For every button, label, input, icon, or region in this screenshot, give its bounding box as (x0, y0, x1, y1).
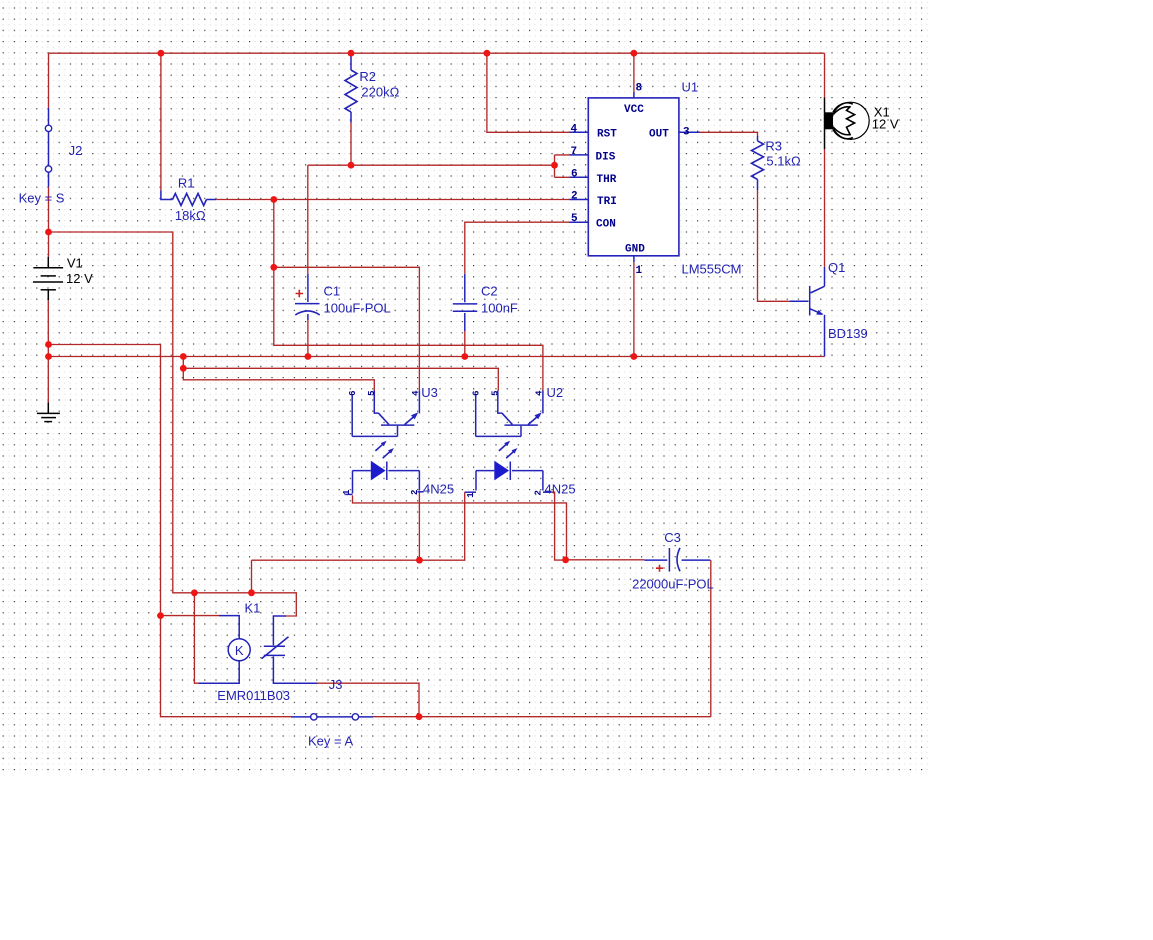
svg-text:100nF: 100nF (481, 301, 518, 316)
capacitor C3 (632, 530, 714, 592)
transistor Q1 (790, 260, 868, 357)
svg-text:8: 8 (636, 83, 643, 95)
wire lamp bottom to Q1 collector (824, 149, 826, 267)
U2 pin number 5 (490, 390, 500, 395)
junction battery bottom a (45, 341, 52, 348)
wire U3 pin2 down (418, 492, 420, 560)
svg-text:RST: RST (597, 129, 617, 141)
svg-text:4N25: 4N25 (545, 482, 576, 497)
wire to U3 pin5 (183, 368, 374, 390)
junction battery top (45, 229, 52, 236)
junction 555 gnd rail (631, 353, 638, 360)
svg-text:R1: R1 (178, 175, 195, 190)
svg-text:6: 6 (571, 168, 578, 180)
wire battery minus to ground rail (47, 300, 49, 402)
junction C3 left node (562, 556, 569, 563)
U2 pin number 4 (535, 390, 545, 396)
wire TRI node down to U2 pin4 (274, 267, 543, 390)
svg-text:2: 2 (571, 191, 578, 203)
wire rail to RST pin 4 (487, 53, 570, 132)
svg-text:K1: K1 (245, 600, 261, 615)
U3 pin number 4 (411, 390, 421, 396)
junction coil bottom net (191, 589, 198, 596)
svg-text:C2: C2 (481, 284, 498, 299)
junction R2 bottom (348, 162, 355, 169)
resistor R1 (161, 175, 216, 223)
wire R1 right to TRI pin 2 (216, 199, 569, 201)
switch J3 (291, 677, 373, 749)
wire rail to R1 left (160, 53, 162, 190)
relay K1 (199, 600, 318, 703)
U3 pin number 2 (410, 490, 420, 495)
wire R2 bottom node (308, 123, 555, 166)
junction J3 C3 return (416, 713, 423, 720)
svg-text:TRI: TRI (597, 196, 617, 208)
svg-text:VCC: VCC (624, 104, 644, 116)
capacitor C1 (295, 274, 391, 320)
svg-text:1: 1 (342, 489, 352, 495)
svg-text:C1: C1 (324, 284, 341, 299)
wire ground rail y=356.5 (49, 356, 825, 358)
svg-text:1: 1 (466, 492, 476, 498)
optocoupler U3 (342, 385, 454, 497)
wire OUT pin 3 to R3 (700, 132, 758, 136)
svg-text:OUT: OUT (649, 129, 669, 141)
junction opto emitter net (180, 365, 187, 372)
svg-text:R3: R3 (765, 138, 782, 153)
svg-text:C3: C3 (664, 530, 681, 545)
ground (37, 403, 60, 422)
U2 pin number 6 (471, 390, 481, 395)
svg-text:4: 4 (535, 390, 545, 396)
wire J2 node to K1 feed (x=172.8 drop) (49, 232, 297, 616)
svg-text:Key = A: Key = A (308, 734, 353, 749)
wire gnd rail to U2 pin5 (183, 357, 498, 391)
svg-text:18kΩ: 18kΩ (175, 208, 206, 223)
svg-text:R2: R2 (359, 69, 376, 84)
wire V1 plus to J2 (48, 53, 50, 257)
junction coil feed (157, 612, 164, 619)
wire relay contact bottom to J3 node (318, 683, 420, 717)
switch J2 (19, 108, 83, 206)
555 timer U1 (570, 79, 742, 277)
svg-text:220kΩ: 220kΩ (361, 84, 399, 99)
junction rail x183 (180, 353, 187, 360)
svg-text:3: 3 (683, 126, 690, 138)
svg-text:U3: U3 (421, 385, 438, 400)
svg-text:5: 5 (490, 390, 500, 395)
wire bottom rail right of J3 (373, 716, 711, 718)
wire K1 node to U2 pin1 (252, 492, 465, 560)
U3 pin number 5 (367, 390, 377, 395)
svg-text:100uF-POL: 100uF-POL (324, 301, 391, 316)
wire C3 right to bottom rail (710, 560, 712, 717)
svg-text:K: K (235, 643, 244, 658)
wire DIS THR tee (555, 155, 570, 177)
svg-text:12 V: 12 V (872, 116, 899, 131)
svg-text:U2: U2 (547, 385, 564, 400)
svg-text:5: 5 (367, 390, 377, 395)
lamp X1 (824, 98, 899, 150)
resistor R3 (752, 136, 801, 190)
wire C1 bottom to rail (307, 320, 309, 357)
wire K1 coil bottom return (194, 593, 198, 683)
wire U3 pin1 to C3 left node (353, 495, 567, 559)
U2 pin number 2 (534, 490, 544, 495)
svg-text:1: 1 (636, 265, 643, 277)
svg-text:GND: GND (625, 244, 645, 256)
svg-text:Q1: Q1 (828, 260, 845, 275)
svg-text:2: 2 (534, 490, 544, 495)
junction K1 net up (248, 589, 255, 596)
wire U2 pin2 to C3 left node (551, 492, 566, 560)
junction rail R2 (348, 50, 355, 57)
svg-text:5.1kΩ: 5.1kΩ (766, 154, 801, 169)
wire C3 left lead (566, 559, 645, 561)
junction battery bottom b (45, 353, 52, 360)
wire K1 node up (251, 560, 253, 593)
svg-text:Key = S: Key = S (19, 191, 65, 206)
junction rail VCC (631, 50, 638, 57)
svg-text:U1: U1 (682, 79, 699, 94)
svg-text:EMR011B03: EMR011B03 (217, 688, 290, 703)
svg-text:THR: THR (597, 174, 617, 186)
junction DIS THR (551, 162, 558, 169)
svg-text:2: 2 (410, 490, 420, 495)
junction TRI drop (270, 264, 277, 271)
wire GND pin 1 to rail (633, 262, 635, 356)
svg-text:6: 6 (471, 390, 481, 395)
svg-text:V1: V1 (67, 255, 83, 270)
wire coil top feed (161, 615, 220, 617)
wire lamp top from rail (824, 53, 826, 97)
junction R1 TRI (270, 196, 277, 203)
optocoupler U2 (465, 385, 576, 498)
junction U3 pin2 node (416, 557, 423, 564)
svg-text:4: 4 (411, 390, 421, 396)
capacitor C2 (453, 274, 518, 331)
svg-text:J2: J2 (69, 143, 83, 158)
svg-text:5: 5 (571, 213, 578, 225)
junction rail R1 (158, 50, 165, 57)
svg-text:4: 4 (571, 123, 578, 135)
U2 pin number 1 (466, 492, 476, 498)
svg-text:BD139: BD139 (828, 326, 868, 341)
junction C2 rail (461, 353, 468, 360)
grid background (0, 1, 929, 774)
wire ground to K1 left drop (x=160.5) and bottom rail (49, 345, 292, 717)
svg-text:22000uF-POL: 22000uF-POL (632, 577, 714, 592)
battery V1 (33, 255, 93, 300)
wire CON pin 5 to C2 (465, 222, 570, 274)
svg-text:CON: CON (596, 219, 616, 231)
wire R3 bottom to Q1 base (758, 190, 791, 301)
junction C1 rail (305, 353, 312, 360)
wire VCC top rail (49, 52, 825, 54)
svg-text:J3: J3 (329, 677, 343, 692)
junction rail RST (484, 50, 491, 57)
U3 pin number 6 (348, 390, 358, 395)
svg-text:7: 7 (571, 146, 578, 158)
svg-text:12 V: 12 V (66, 271, 93, 286)
wire rail to VCC pin 8 (633, 53, 635, 92)
wire C2 bottom to rail (464, 331, 466, 357)
U3 pin number 1 (342, 489, 352, 495)
svg-text:LM555CM: LM555CM (682, 262, 742, 277)
svg-text:6: 6 (348, 390, 358, 395)
wire TRI node down to U3 pin4 (274, 200, 420, 391)
svg-text:4N25: 4N25 (423, 482, 454, 497)
resistor R2 (345, 57, 400, 123)
wire R2 node down to C1 plus (307, 165, 309, 274)
svg-text:DIS: DIS (596, 152, 616, 164)
